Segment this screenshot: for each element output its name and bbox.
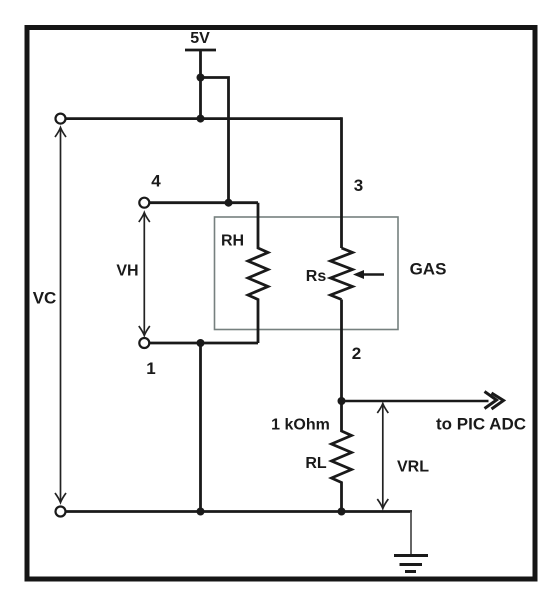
wire node 2 to ADC xyxy=(342,400,489,403)
terminal VC bottom xyxy=(56,507,66,517)
svg-text:3: 3 xyxy=(354,176,363,195)
gas arrow into Rs xyxy=(353,270,384,279)
resistor RH xyxy=(248,203,268,343)
measure arrow VC xyxy=(55,128,66,503)
junction dot bottom rail left xyxy=(197,508,205,516)
measure arrow VRL xyxy=(377,404,388,509)
junction dot terminal 4 row xyxy=(225,199,233,207)
junction dot node 2 xyxy=(338,397,346,405)
junction dot 5V branch xyxy=(197,74,205,82)
svg-text:to PIC ADC: to PIC ADC xyxy=(436,415,526,434)
svg-text:VC: VC xyxy=(33,289,57,308)
measure arrow VH xyxy=(139,213,150,336)
svg-text:4: 4 xyxy=(151,172,161,191)
ground xyxy=(394,556,428,572)
wire rail corner down to Rs xyxy=(340,117,343,248)
power bar 5V xyxy=(185,49,216,52)
wire top rail xyxy=(66,117,342,120)
terminal 4 xyxy=(139,198,149,208)
svg-text:GAS: GAS xyxy=(410,260,447,279)
junction dot top rail xyxy=(197,115,205,123)
svg-text:2: 2 xyxy=(352,344,361,363)
terminal 1 xyxy=(139,338,149,348)
svg-text:VRL: VRL xyxy=(397,459,429,476)
resistor RL xyxy=(332,401,352,512)
sensor body box xyxy=(215,217,399,330)
svg-text:RH: RH xyxy=(221,233,244,250)
terminal VC top xyxy=(56,114,66,124)
wire bottom rail xyxy=(66,510,412,513)
junction dot bottom rail RL xyxy=(338,508,346,516)
junction dot terminal 1 row xyxy=(197,339,205,347)
svg-text:1 kOhm: 1 kOhm xyxy=(271,417,330,434)
arrow chevrons to ADC xyxy=(485,392,504,410)
wire branch 5V to terminal 4 xyxy=(201,78,229,203)
wire 5V vertical to top rail xyxy=(199,50,202,119)
wire drop to ground xyxy=(410,512,412,556)
svg-text:RL: RL xyxy=(305,455,327,472)
wire terminal 4 row xyxy=(150,201,258,204)
resistor Rs xyxy=(331,248,353,300)
svg-text:5V: 5V xyxy=(190,30,210,47)
svg-text:Rs: Rs xyxy=(306,268,327,285)
wire terminal 1 to ground rail xyxy=(199,343,202,512)
svg-text:VH: VH xyxy=(116,263,138,280)
wire Rs to node 2 xyxy=(340,300,343,402)
svg-text:1: 1 xyxy=(146,359,155,378)
wire terminal 1 row xyxy=(150,342,258,345)
